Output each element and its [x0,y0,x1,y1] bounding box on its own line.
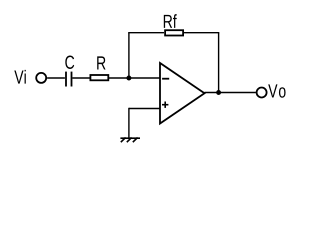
terminal Vo [257,88,267,98]
resistor Rf [165,30,183,35]
wire feedback right vertical [218,33,220,93]
node junction output [216,90,221,95]
wire C-to-R [72,77,89,79]
label Vo [268,84,285,97]
wire feedback left vertical [128,33,130,78]
wire feedback top right [184,32,219,34]
terminal Vi [36,73,46,83]
node junction input [126,76,131,81]
wire plus input [129,108,160,110]
wire feedback top left [128,32,164,34]
label Vi [14,70,25,84]
label C [65,56,74,69]
resistor R [90,75,108,80]
wire ground stem [128,108,130,139]
capacitor C [66,72,72,87]
wire R-to-opamp [109,77,160,79]
pin plus symbol [162,102,168,108]
wire output [205,92,256,94]
label Rf [164,14,177,28]
label R [97,56,105,69]
op-amp U1 [160,63,205,124]
pin minus symbol [162,78,169,80]
wire Vi-to-C [47,77,65,79]
ground [120,138,140,143]
